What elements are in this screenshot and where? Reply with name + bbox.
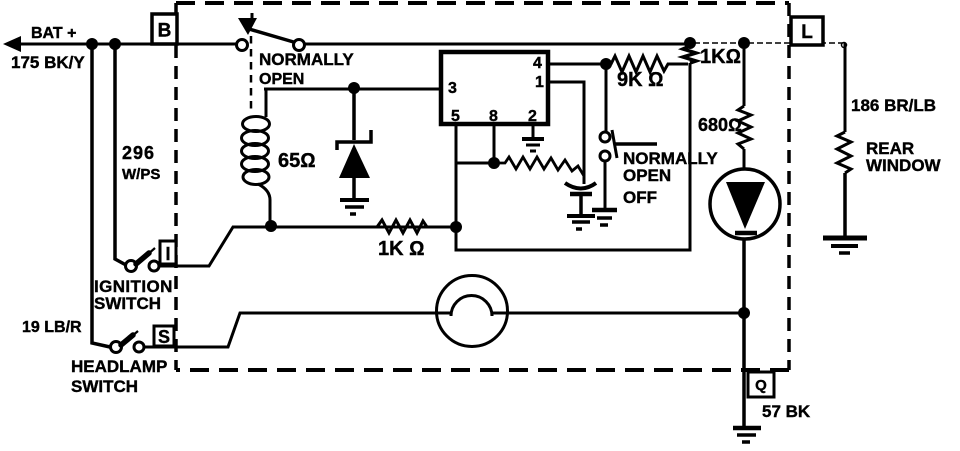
- terminal S box: [154, 326, 174, 347]
- svg-text:OPEN: OPEN: [623, 166, 671, 185]
- wire coil top to pin 3: [264, 88, 441, 91]
- svg-text:8: 8: [489, 108, 498, 125]
- capacitor C1: [565, 183, 596, 215]
- resistor 1K (horizontal): [377, 220, 451, 233]
- ignition switch blade: [136, 248, 155, 264]
- wire LED to ground: [742, 239, 746, 427]
- svg-text:296: 296: [122, 143, 155, 163]
- label HEADLAMP SWITCH: [71, 357, 167, 396]
- label 296 W/PS: [122, 143, 160, 183]
- label 1K ohm (top right): [700, 46, 741, 68]
- defog switch contact bottom: [600, 151, 610, 161]
- svg-text:2: 2: [528, 108, 537, 125]
- label 175 BK/Y: [11, 53, 85, 72]
- node pin 8: [488, 157, 500, 169]
- relay contact left: [237, 40, 248, 51]
- label 9K ohm: [617, 69, 663, 91]
- resistor 9K: [606, 56, 688, 72]
- node rear window tap: [842, 43, 847, 48]
- pin 2 label: [528, 108, 537, 125]
- node pin4/9K: [600, 58, 612, 70]
- ground (capacitor): [567, 216, 595, 229]
- ignition switch contact left: [126, 261, 137, 272]
- svg-text:I: I: [165, 244, 170, 264]
- wire ignition switch to 1K: [159, 227, 451, 266]
- defog switch blade: [612, 130, 657, 158]
- wire grid to ground: [843, 173, 847, 237]
- label 19 LB/R: [22, 319, 82, 336]
- wire 680 to LED: [743, 149, 746, 170]
- label IGNITION SWITCH: [94, 277, 173, 313]
- terminal L box: [791, 17, 823, 45]
- terminal I box: [160, 241, 176, 264]
- label BAT +: [31, 25, 76, 42]
- pin 8 label: [489, 108, 498, 125]
- label 186 BR/LB: [851, 96, 936, 115]
- svg-text:L: L: [801, 22, 813, 43]
- svg-text:1K Ω: 1K Ω: [378, 238, 424, 260]
- svg-text:57 BK: 57 BK: [762, 402, 811, 421]
- resistor 1K (top right vertical): [683, 44, 696, 63]
- svg-text:5: 5: [451, 108, 460, 125]
- wire LED branch down: [743, 43, 746, 106]
- terminal B box: [152, 14, 177, 44]
- svg-text:1: 1: [535, 74, 544, 91]
- wire node to defog switch: [605, 64, 608, 132]
- svg-text:9K Ω: 9K Ω: [617, 69, 663, 91]
- wire pin 2 down: [532, 124, 535, 138]
- ground (pin 2): [522, 139, 544, 151]
- wire pin5-pin8 horizontal: [456, 162, 494, 165]
- wire headlamp feed vertical: [92, 44, 110, 347]
- svg-text:HEADLAMP: HEADLAMP: [71, 357, 167, 376]
- svg-text:65Ω: 65Ω: [278, 150, 316, 172]
- wire pin 4 to switch node: [548, 63, 606, 66]
- svg-text:4: 4: [533, 55, 542, 72]
- battery feed arrow: [3, 36, 21, 52]
- svg-text:WINDOW: WINDOW: [866, 156, 942, 175]
- relay contact right: [294, 40, 305, 51]
- wire defog switch to ground: [604, 161, 607, 209]
- lamp / circuit breaker symbol: [437, 276, 509, 347]
- wire 1K/9K node down and across to pin5 node: [456, 63, 690, 250]
- node lamp/LED junction: [738, 307, 750, 319]
- ground (rear window): [823, 238, 867, 253]
- node pin5/1K: [450, 221, 462, 233]
- module dashed border bottom: [176, 368, 789, 372]
- wire ignition feed vertical: [115, 44, 126, 265]
- svg-text:1KΩ: 1KΩ: [700, 46, 741, 68]
- relay armature triangle: [238, 13, 257, 35]
- ground (zener): [340, 200, 369, 214]
- svg-text:B: B: [158, 21, 172, 42]
- zener diode CR1: [337, 88, 371, 199]
- resistor rear window defog grid: [837, 132, 851, 173]
- label 680 ohm: [698, 115, 742, 135]
- ground (defog switch): [592, 210, 617, 225]
- node zener top: [348, 82, 360, 94]
- ground (57 BK): [733, 428, 761, 442]
- svg-text:BAT +: BAT +: [31, 25, 76, 42]
- svg-text:186 BR/LB: 186 BR/LB: [851, 96, 936, 115]
- svg-text:3: 3: [448, 80, 457, 97]
- resistor 680 ohm: [738, 106, 751, 149]
- wire headlamp switch to lamp: [144, 313, 437, 347]
- label 65 ohm: [278, 150, 316, 172]
- svg-text:S: S: [158, 327, 170, 347]
- pin 3 label: [448, 80, 457, 97]
- svg-text:OFF: OFF: [623, 188, 657, 207]
- module dashed border left: [174, 3, 178, 370]
- svg-text:W/PS: W/PS: [122, 166, 160, 183]
- module dashed border top: [176, 1, 789, 5]
- svg-text:680Ω: 680Ω: [698, 115, 742, 135]
- headlamp switch contact right: [134, 342, 144, 352]
- headlamp switch blade: [121, 331, 138, 345]
- wire pin 5 down: [455, 124, 458, 227]
- node ignition feed: [109, 38, 121, 50]
- headlamp switch contact left: [111, 342, 122, 353]
- pin 1 label: [535, 74, 544, 91]
- label NORMALLY OPEN (relay): [259, 50, 354, 88]
- relay linkage dashed: [250, 36, 253, 112]
- relay blade: [249, 29, 297, 43]
- svg-text:OPEN: OPEN: [259, 71, 304, 88]
- label 57 BK: [762, 402, 811, 421]
- label 1K ohm (horizontal): [378, 238, 424, 260]
- svg-text:SWITCH: SWITCH: [94, 294, 161, 313]
- wire lamp to LED node: [508, 312, 744, 315]
- svg-text:Q: Q: [755, 377, 767, 394]
- ignition switch contact right: [149, 261, 159, 271]
- pin 5 label: [451, 108, 460, 125]
- label NORMALLY OPEN OFF: [623, 149, 718, 207]
- wire BAT+ to relay contact: [18, 43, 238, 46]
- terminal Q box: [748, 372, 774, 397]
- svg-text:19 LB/R: 19 LB/R: [22, 319, 82, 336]
- pin 4 label: [533, 55, 542, 72]
- IC U1 box: [441, 52, 548, 124]
- wire relay contact to 1K node: [305, 43, 688, 46]
- node LED branch: [738, 37, 750, 49]
- svg-text:NORMALLY: NORMALLY: [259, 50, 354, 69]
- wire rear window drop: [844, 43, 847, 132]
- wire pin 8 down: [493, 124, 496, 163]
- svg-text:175 BK/Y: 175 BK/Y: [11, 53, 85, 72]
- wire pin 1 to capacitor: [548, 82, 584, 184]
- node 1K top: [684, 37, 696, 49]
- defog switch contact top: [600, 132, 610, 142]
- module dashed border right: [787, 3, 791, 370]
- svg-text:SWITCH: SWITCH: [71, 377, 138, 396]
- label REAR WINDOW: [866, 139, 942, 175]
- node headlamp feed: [86, 38, 98, 50]
- relay coil L1 65 ohm: [242, 89, 271, 224]
- LED indicator: [710, 169, 780, 239]
- node coil bottom: [265, 220, 277, 232]
- resistor R feedback (pin8 to cap): [494, 157, 584, 176]
- wire thin top right: [694, 42, 846, 44]
